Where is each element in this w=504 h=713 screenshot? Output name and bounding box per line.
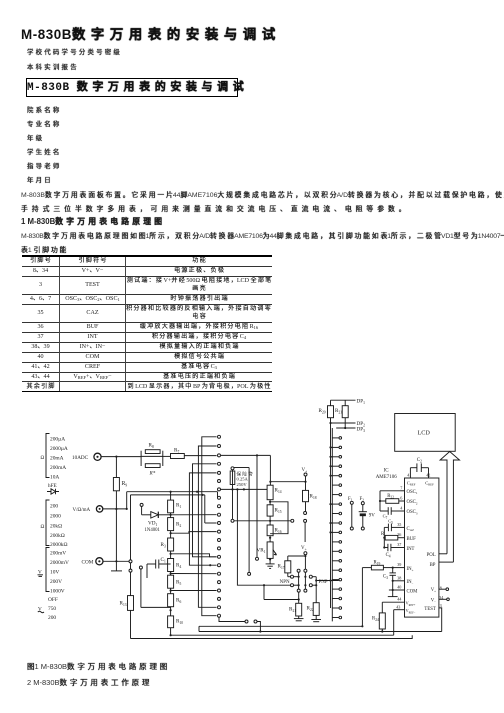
contact R18 b bbox=[304, 519, 307, 522]
svg-text:C4: C4 bbox=[386, 553, 391, 558]
resistor R1 bbox=[168, 500, 174, 513]
diode VD1 bbox=[151, 512, 159, 518]
svg-text:R15: R15 bbox=[275, 508, 282, 514]
svg-text:R21: R21 bbox=[289, 607, 296, 613]
resistor R21 bbox=[296, 603, 302, 616]
wire COM to contacts bbox=[103, 560, 129, 562]
svg-text:2000mV: 2000mV bbox=[50, 560, 69, 566]
pin 38 IN- bbox=[393, 580, 405, 582]
wire R18 down bbox=[305, 502, 307, 512]
bus 2 bbox=[171, 634, 394, 636]
wire socket left feed2 bbox=[264, 599, 299, 601]
pin 40 COM bbox=[389, 589, 405, 591]
wire R2-R3 bbox=[170, 531, 172, 538]
resistor R22osc bbox=[380, 500, 386, 502]
svg-text:BP: BP bbox=[430, 563, 436, 568]
wire staircase n1 bbox=[171, 514, 217, 516]
bus 3 bbox=[131, 635, 413, 638]
switch contact column 2 bbox=[332, 437, 339, 439]
capacitor C3 bbox=[392, 568, 394, 573]
svg-text:OFF: OFF bbox=[48, 597, 58, 603]
svg-text:200kΩ: 200kΩ bbox=[50, 533, 65, 539]
node V-rail junction bbox=[115, 508, 117, 510]
svg-text:VD1: VD1 bbox=[148, 521, 158, 527]
wire R4-R5 bbox=[170, 572, 172, 576]
LCD box bbox=[395, 414, 456, 452]
pin 36 BUF bbox=[401, 537, 405, 539]
wire jog to bus bbox=[257, 622, 261, 632]
svg-text:2000kΩ: 2000kΩ bbox=[50, 542, 67, 548]
resistor R3 bbox=[168, 538, 174, 551]
svg-text:V−: V− bbox=[431, 598, 436, 603]
wire bypass loop bbox=[270, 502, 288, 534]
svg-text:VREF+: VREF+ bbox=[406, 601, 416, 607]
resistor R14 bbox=[267, 485, 273, 500]
svg-text:10A: 10A bbox=[50, 475, 59, 481]
svg-text:200: 200 bbox=[48, 615, 56, 621]
svg-text:20kΩ: 20kΩ bbox=[50, 524, 62, 530]
svg-text:200mA: 200mA bbox=[50, 465, 66, 471]
main document title bbox=[21, 23, 275, 43]
svg-text:IC: IC bbox=[384, 469, 390, 474]
contact R18 a bbox=[304, 512, 307, 515]
node busA top bbox=[196, 491, 198, 493]
wire VD1 branch bbox=[141, 506, 143, 515]
wire 10ADC rail bbox=[101, 456, 141, 458]
wire C1 ground leg bbox=[146, 564, 148, 578]
resistor R18 bbox=[303, 490, 309, 501]
svg-text:OSC2: OSC2 bbox=[407, 500, 418, 505]
svg-text:35: 35 bbox=[397, 522, 401, 527]
wire R16-VR1 bbox=[269, 536, 271, 542]
hFE socket contact B2 bbox=[309, 584, 312, 587]
svg-text:R22: R22 bbox=[387, 494, 394, 499]
svg-text:Ω: Ω bbox=[41, 456, 45, 461]
resistor R24 bbox=[381, 602, 383, 613]
col2 left stub c bbox=[331, 522, 333, 524]
figure caption bbox=[27, 661, 167, 672]
wire R5-R6 bbox=[170, 588, 172, 594]
svg-text:1000V: 1000V bbox=[50, 589, 65, 595]
svg-text:V+: V+ bbox=[302, 468, 308, 473]
wire socket B feed bbox=[264, 584, 291, 586]
svg-text:R2: R2 bbox=[176, 522, 181, 528]
fuse FU 0.25A bbox=[232, 470, 234, 485]
wire R10 to bus bbox=[170, 628, 172, 636]
wire R7 to contact bbox=[184, 455, 216, 457]
wire col1 bottom jog bbox=[219, 617, 245, 621]
svg-text:AME7106: AME7106 bbox=[376, 475, 398, 480]
boxed report title bbox=[26, 78, 238, 97]
hFE socket link 2 bbox=[304, 556, 306, 569]
resistor R23 bbox=[383, 537, 386, 539]
bus wire C bbox=[193, 464, 217, 557]
svg-text:3: 3 bbox=[440, 603, 442, 608]
svg-text:41: 41 bbox=[407, 473, 411, 478]
resistor R7 bbox=[171, 454, 185, 459]
resistor R19 bbox=[362, 567, 371, 569]
svg-text:1N4001: 1N4001 bbox=[145, 528, 161, 533]
svg-text:44: 44 bbox=[397, 597, 402, 602]
svg-text:37: 37 bbox=[397, 542, 401, 547]
pin 7 OSC1 bbox=[401, 490, 405, 492]
resistor R4 bbox=[168, 559, 174, 572]
wire R9 to COM rail bbox=[115, 509, 117, 561]
svg-text:250V: 250V bbox=[237, 482, 248, 487]
col2 left stub d bbox=[331, 531, 333, 533]
hFE socket contact B1 bbox=[291, 584, 294, 587]
wire PNP to col2 bbox=[316, 580, 339, 582]
wire DP2 rail bbox=[330, 418, 332, 423]
svg-text:NPN: NPN bbox=[280, 580, 290, 585]
svg-text:COM: COM bbox=[407, 589, 419, 594]
wire R18 tail bbox=[304, 522, 306, 542]
svg-text:750: 750 bbox=[48, 606, 56, 612]
svg-text:C1: C1 bbox=[161, 557, 166, 563]
svg-text:38: 38 bbox=[397, 575, 401, 580]
ground R22 bbox=[315, 615, 317, 619]
svg-text:R7: R7 bbox=[174, 448, 179, 454]
IC AME7106 box bbox=[405, 478, 439, 617]
svg-text:4: 4 bbox=[400, 506, 403, 511]
svg-text:INT: INT bbox=[407, 547, 415, 552]
intro paragraph bbox=[21, 189, 504, 199]
wire fuse feed bbox=[234, 467, 249, 469]
col2 left stub b bbox=[331, 503, 333, 505]
wire R3-R4 bbox=[170, 551, 172, 559]
capacitor C1 bbox=[147, 563, 156, 565]
node COM-ground junction bbox=[115, 560, 117, 562]
resistor R8 bbox=[145, 450, 160, 454]
node mid drop top bbox=[236, 488, 238, 490]
svg-text:Ω: Ω bbox=[41, 524, 45, 530]
svg-text:V+: V+ bbox=[431, 588, 436, 593]
wire caz-buf left bbox=[383, 527, 385, 547]
wire shunt to R7 bbox=[163, 455, 171, 457]
svg-text:COM: COM bbox=[82, 560, 94, 566]
wire row3 right bbox=[221, 454, 270, 456]
svg-text:6: 6 bbox=[400, 496, 402, 501]
svg-text:CREF: CREF bbox=[407, 480, 416, 486]
hFE socket link 1 bbox=[297, 569, 300, 572]
capacitor C2 bbox=[409, 468, 411, 478]
svg-text:OSC1: OSC1 bbox=[407, 490, 418, 495]
resistor R13 bbox=[128, 596, 134, 611]
col2 left stub t1 bbox=[331, 446, 333, 448]
wire socket right rail bbox=[312, 576, 316, 578]
contact COM b1 bbox=[129, 569, 132, 572]
wire pin43 drop bbox=[393, 610, 395, 636]
range bracket DC volt group bbox=[46, 548, 50, 592]
wire DP2 long drop bbox=[330, 423, 332, 608]
svg-text:R4: R4 bbox=[176, 563, 181, 569]
wire V riser bbox=[126, 492, 128, 509]
range bracket ohm group bbox=[46, 500, 50, 546]
wire wiper link bbox=[234, 520, 291, 522]
capacitor C7 bbox=[380, 510, 388, 512]
node VmA-chain bbox=[126, 508, 128, 510]
svg-text:10V: 10V bbox=[50, 570, 59, 576]
svg-text:R13: R13 bbox=[120, 601, 127, 607]
svg-text:7: 7 bbox=[400, 485, 402, 490]
svg-text:R8: R8 bbox=[149, 443, 154, 449]
contact VD1 branch bbox=[140, 503, 143, 506]
resistor R20b bbox=[344, 400, 346, 406]
svg-text:V/Ω/mA: V/Ω/mA bbox=[73, 508, 91, 513]
ground at COM bbox=[115, 561, 117, 571]
bus wire A bbox=[202, 437, 217, 616]
wire R13 to bus bbox=[130, 610, 132, 638]
potentiometer VR1 bbox=[267, 542, 273, 559]
svg-text:200V: 200V bbox=[50, 579, 62, 585]
wire R14 feed bbox=[269, 455, 271, 485]
svg-text:TEST: TEST bbox=[424, 607, 436, 612]
diode-test symbol bbox=[47, 489, 59, 494]
resistor R22 bbox=[313, 603, 319, 616]
wire pin7 bbox=[380, 490, 401, 492]
svg-text:R9: R9 bbox=[122, 481, 128, 487]
node bus jog bbox=[259, 630, 261, 632]
pin 4 OSC3 bbox=[401, 510, 405, 512]
wire R14-R18 rail bbox=[270, 481, 305, 483]
wire DP1 rail bbox=[331, 399, 356, 401]
resistor R16 bbox=[267, 525, 273, 536]
pin 44 VREF+ bbox=[382, 601, 404, 603]
node chain top bbox=[170, 491, 172, 493]
svg-text:CAZ: CAZ bbox=[407, 527, 415, 532]
col2 left stub t2 bbox=[331, 456, 333, 458]
wire staircase n3b bbox=[171, 573, 217, 575]
node wiper crossing bbox=[269, 520, 271, 522]
node chain n5 bbox=[170, 609, 172, 611]
svg-text:R14: R14 bbox=[275, 488, 282, 494]
svg-text:43: 43 bbox=[396, 604, 400, 609]
wire R19 left drop bbox=[361, 568, 363, 627]
wire ohm riser bbox=[130, 563, 132, 569]
pin 39 IN+ bbox=[393, 567, 405, 569]
svg-text:VREF−: VREF− bbox=[406, 608, 416, 614]
svg-text:9V: 9V bbox=[369, 514, 376, 519]
svg-text:R21: R21 bbox=[335, 408, 342, 414]
bus wire B bbox=[198, 446, 216, 607]
resistor R9 bbox=[113, 478, 119, 491]
shunt pair verticals bbox=[140, 451, 142, 466]
contact COM b2 bbox=[139, 566, 142, 569]
contact V+ lower bbox=[304, 552, 307, 555]
svg-text:LCD: LCD bbox=[418, 430, 431, 437]
svg-text:C3: C3 bbox=[383, 575, 388, 580]
svg-text:IN−: IN− bbox=[407, 580, 414, 585]
bus top bbox=[219, 625, 362, 627]
svg-text:R17: R17 bbox=[278, 564, 285, 570]
wire R14-R15 bbox=[269, 500, 271, 505]
capacitor C5 bbox=[384, 526, 388, 528]
svg-text:C5: C5 bbox=[388, 519, 393, 525]
display arrow bbox=[440, 452, 459, 563]
contact fuse bottom bbox=[231, 519, 234, 522]
svg-text:R19: R19 bbox=[374, 561, 381, 566]
svg-text:POL: POL bbox=[427, 553, 436, 558]
svg-text:10ADC: 10ADC bbox=[72, 455, 89, 461]
node chain n4 bbox=[170, 589, 172, 591]
battery GB 9V bbox=[361, 502, 364, 505]
col2 left stub t3 bbox=[331, 465, 333, 467]
wire staircase n3 bbox=[171, 554, 217, 557]
switch link wire bbox=[350, 501, 353, 504]
wire V+2 rail bbox=[304, 555, 306, 556]
svg-text:R22: R22 bbox=[307, 606, 314, 612]
wire ohm drop bbox=[248, 468, 250, 573]
svg-text:OSC3: OSC3 bbox=[407, 510, 418, 515]
svg-text:40: 40 bbox=[397, 585, 401, 590]
svg-text:200µA: 200µA bbox=[50, 437, 65, 443]
svg-text:200: 200 bbox=[50, 504, 58, 510]
pin 43 VREF- bbox=[394, 609, 405, 611]
wire mid drop bbox=[237, 489, 264, 599]
svg-text:hFE: hFE bbox=[48, 483, 57, 489]
oscillator left rail bbox=[379, 491, 381, 511]
resistor R2 bbox=[168, 518, 174, 531]
wire fuse down bbox=[232, 485, 234, 520]
capacitor C4 bbox=[384, 547, 388, 549]
svg-text:8: 8 bbox=[440, 586, 442, 591]
wire row7 right bbox=[220, 488, 267, 490]
svg-text:V+: V+ bbox=[301, 546, 307, 551]
svg-text:R*: R* bbox=[149, 471, 156, 477]
contact COM a bbox=[129, 560, 132, 563]
svg-text:DP3: DP3 bbox=[357, 427, 366, 433]
pin 35 CAZ bbox=[401, 526, 405, 528]
svg-text:2000: 2000 bbox=[50, 514, 61, 520]
wire R18 stub bbox=[305, 482, 307, 491]
pin 6 OSC2 bbox=[401, 500, 405, 502]
svg-text:R18: R18 bbox=[310, 494, 317, 500]
svg-text:DP1: DP1 bbox=[357, 399, 366, 405]
hFE socket contact E2 bbox=[309, 575, 312, 578]
wire R13 drop bbox=[130, 572, 132, 596]
node r14b bbox=[269, 501, 271, 503]
resistor R* bbox=[145, 464, 160, 468]
wire V-ohm-mA rail bbox=[103, 508, 127, 510]
wire R1-R2 bbox=[170, 513, 172, 518]
range bracket current group bbox=[46, 434, 50, 478]
svg-text:20mA: 20mA bbox=[50, 456, 64, 462]
svg-text:BUF: BUF bbox=[407, 537, 417, 542]
node VR1 bottom bbox=[269, 558, 271, 560]
svg-text:42: 42 bbox=[426, 473, 430, 478]
svg-text:C2: C2 bbox=[417, 458, 422, 463]
resistor R10 bbox=[168, 616, 174, 628]
wire V+ to rail bbox=[305, 476, 307, 482]
col2 left stub a bbox=[331, 475, 333, 477]
pin 37 INT bbox=[401, 547, 405, 549]
contact fuse top bbox=[231, 467, 234, 470]
wire col2 spine bbox=[331, 428, 333, 621]
bus wire D bbox=[189, 473, 216, 565]
contact jog b bbox=[254, 620, 257, 623]
contact jog a bbox=[245, 620, 248, 623]
svg-text:R16: R16 bbox=[275, 528, 282, 534]
node chain n3 bbox=[170, 553, 172, 555]
wire R17 to socket bbox=[287, 573, 289, 577]
hFE socket contact E1 bbox=[291, 575, 294, 578]
node r16b bbox=[269, 537, 271, 539]
svg-text:R20: R20 bbox=[319, 408, 326, 414]
resistor R5 bbox=[168, 575, 174, 588]
svg-text:R10: R10 bbox=[176, 619, 183, 625]
svg-text:CREF: CREF bbox=[425, 480, 434, 486]
wire shunt mid bbox=[141, 455, 163, 457]
svg-text:200mV: 200mV bbox=[50, 551, 66, 557]
bus 1 bbox=[199, 631, 442, 633]
node chain n2 bbox=[170, 532, 172, 534]
ground VR1 bbox=[269, 558, 271, 564]
svg-text:R1: R1 bbox=[176, 503, 181, 509]
svg-text:IN+: IN+ bbox=[407, 567, 414, 572]
wire in- com ground bbox=[392, 581, 394, 590]
wire R15-R16 bbox=[269, 516, 271, 525]
node VD1 junction bbox=[170, 514, 172, 516]
wire DP3 rail bbox=[344, 418, 346, 428]
contact V+ upper bbox=[304, 473, 307, 476]
wire R6-R10 bbox=[170, 607, 172, 616]
svg-text:R24: R24 bbox=[372, 617, 379, 622]
node 10ADC-R9 bbox=[115, 456, 117, 458]
svg-text:R5: R5 bbox=[176, 580, 181, 586]
resistor R6 bbox=[168, 594, 174, 607]
switch contact column 1 bbox=[218, 435, 221, 438]
wire chain segs bbox=[170, 492, 172, 500]
svg-text:R6: R6 bbox=[176, 598, 181, 604]
pin function table bbox=[22, 255, 272, 392]
svg-text:39: 39 bbox=[397, 562, 401, 567]
wire staircase n2 bbox=[171, 532, 217, 534]
resistor R15 bbox=[267, 505, 273, 516]
resistor R20 bbox=[330, 400, 332, 406]
svg-text:C7: C7 bbox=[383, 514, 388, 520]
wire hfe branch bbox=[140, 569, 142, 608]
ground R21 bbox=[298, 616, 300, 619]
svg-text:2000µA: 2000µA bbox=[50, 446, 68, 452]
resistor R17 bbox=[285, 561, 291, 573]
wire ACV drop bbox=[256, 455, 258, 557]
svg-text:VR1: VR1 bbox=[257, 548, 266, 554]
contact wiper right bbox=[291, 519, 294, 522]
svg-text:R3: R3 bbox=[161, 542, 166, 548]
wire NPN emitter down bbox=[298, 592, 300, 599]
wire staircase n4 bbox=[171, 590, 217, 592]
